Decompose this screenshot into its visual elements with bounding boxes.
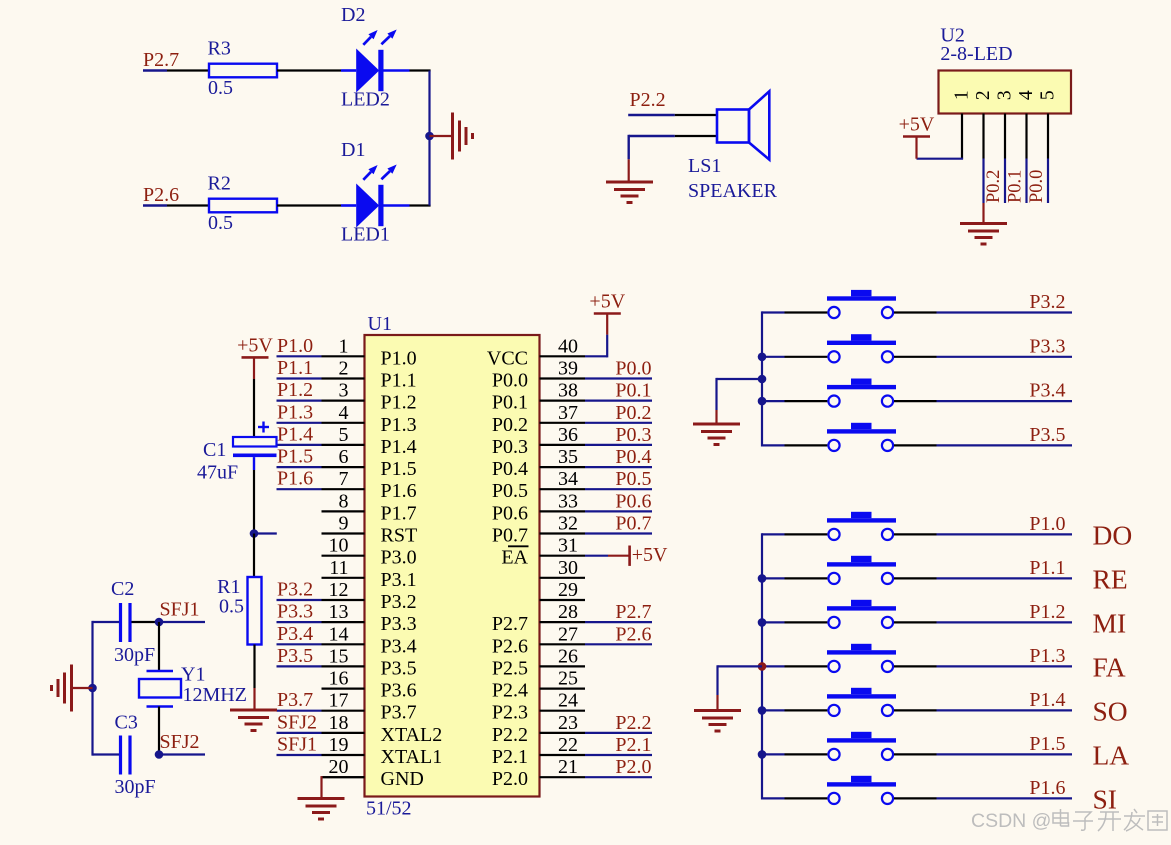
wire (93, 753, 120, 755)
svg-text:4: 4 (339, 402, 349, 424)
node P1.1 (937, 557, 1073, 579)
node P0.1 (585, 380, 652, 402)
svg-text:P0.0: P0.0 (1027, 170, 1047, 203)
svg-text:P3.3: P3.3 (1029, 335, 1065, 357)
svg-text:1: 1 (952, 90, 973, 100)
wire (1025, 114, 1027, 159)
speaker LS1 (717, 91, 769, 159)
svg-text:P0.0: P0.0 (615, 358, 651, 380)
node SFJ2 (155, 731, 205, 759)
junction (758, 397, 767, 406)
svg-text:P2.1: P2.1 (615, 734, 651, 756)
node P3.2 (277, 579, 322, 601)
pin 12 of U1 (P3.2) (322, 579, 417, 613)
svg-text:P3.2: P3.2 (1029, 291, 1065, 313)
svg-text:30pF: 30pF (114, 644, 155, 666)
svg-text:35: 35 (558, 446, 578, 468)
push-button switch S-LA (762, 732, 937, 760)
svg-text:SFJ1: SFJ1 (160, 599, 200, 621)
svg-text:12: 12 (329, 579, 349, 601)
svg-text:DO: DO (1093, 519, 1133, 550)
pin 19 of U1 (XTAL1) (322, 734, 443, 768)
svg-text:P0.1: P0.1 (615, 380, 651, 402)
pin 32 of U1 (P0.7) (492, 513, 585, 547)
push-button switch S-DO (762, 512, 937, 540)
node P2.1 (585, 734, 652, 756)
svg-text:P1.0: P1.0 (381, 347, 417, 369)
wire (917, 158, 964, 160)
node P0.7 (585, 513, 652, 535)
node P1.5 (937, 733, 1073, 755)
wire (430, 135, 453, 137)
node P3.3 (937, 335, 1073, 357)
wire (410, 69, 431, 71)
svg-text:P0.6: P0.6 (492, 502, 528, 524)
svg-text:P3.7: P3.7 (381, 702, 417, 724)
pin 34 of U1 (P0.5) (492, 468, 585, 502)
ground (52, 665, 72, 712)
svg-text:24: 24 (558, 690, 578, 712)
node P3.7 (277, 689, 322, 711)
node P0.4 (585, 446, 652, 468)
pin 31 of U1 (EA) (501, 535, 585, 569)
svg-text:U1: U1 (368, 313, 392, 335)
junction (250, 529, 259, 538)
push-button switch S-FA (762, 644, 937, 672)
wire (961, 114, 963, 159)
svg-text:P3.3: P3.3 (277, 601, 313, 623)
wire (915, 137, 917, 159)
pin 7 of U1 (P1.6) (322, 468, 417, 502)
svg-text:D1: D1 (341, 139, 365, 161)
wire (982, 203, 984, 223)
svg-text:P1.0: P1.0 (277, 335, 313, 357)
node P0.6 (585, 490, 652, 512)
svg-text:P1.4: P1.4 (1029, 689, 1065, 711)
svg-text:P1.4: P1.4 (381, 436, 417, 458)
svg-text:P3.2: P3.2 (277, 579, 313, 601)
wire (277, 204, 341, 206)
node P3.2 (937, 291, 1073, 313)
node P1.5 (277, 446, 322, 468)
svg-text:P0.4: P0.4 (615, 446, 651, 468)
resistor R1 (217, 576, 261, 645)
node P0.0 (585, 358, 652, 380)
ground (230, 710, 277, 731)
svg-text:3: 3 (995, 90, 1016, 100)
svg-text:21: 21 (558, 756, 578, 778)
svg-text:P0.1: P0.1 (1006, 170, 1026, 203)
node P3.3 (277, 601, 322, 623)
junction (425, 132, 434, 141)
pin 38 of U1 (P0.1) (492, 380, 585, 414)
svg-text:P2.6: P2.6 (615, 623, 651, 645)
junction (758, 375, 767, 384)
pin 39 of U1 (P0.0) (492, 358, 585, 392)
wire (158, 622, 160, 670)
wire (717, 378, 763, 423)
svg-text:P1.1: P1.1 (277, 357, 313, 379)
svg-text:P1.5: P1.5 (381, 458, 417, 480)
node P3.5 (937, 424, 1073, 446)
wire (675, 135, 717, 137)
svg-text:P1.6: P1.6 (277, 468, 313, 490)
node P3.5 (277, 645, 322, 667)
svg-text:P1.2: P1.2 (277, 379, 313, 401)
svg-text:P2.2: P2.2 (615, 712, 651, 734)
svg-text:1: 1 (339, 335, 349, 357)
svg-text:P0.5: P0.5 (615, 468, 651, 490)
wire (1047, 159, 1049, 204)
capacitor C3 (30pF) (115, 712, 156, 799)
node SFJ1 (155, 599, 205, 627)
pin 3 of U1 (P1.2) (322, 380, 417, 414)
node P0.5 (585, 468, 652, 490)
svg-text:P2.1: P2.1 (492, 746, 528, 768)
pin 26 of U1 (P2.5) (492, 645, 585, 679)
capacitor C1 (47uF electrolytic) (197, 422, 277, 484)
svg-text:VCC: VCC (487, 347, 528, 369)
svg-text:P1.6: P1.6 (1029, 777, 1065, 799)
pin 28 of U1 (P2.7) (492, 601, 585, 635)
svg-text:30: 30 (558, 557, 578, 579)
pin 13 of U1 (P3.3) (322, 601, 417, 635)
svg-text:17: 17 (329, 690, 349, 712)
svg-text:P0.2: P0.2 (492, 414, 528, 436)
push-button switch S-P3.2 (762, 290, 937, 318)
wire (718, 665, 763, 709)
svg-text:P3.4: P3.4 (277, 623, 313, 645)
wire (91, 621, 93, 756)
svg-text:Y1: Y1 (181, 664, 205, 686)
svg-text:XTAL1: XTAL1 (381, 746, 443, 768)
svg-text:33: 33 (558, 490, 578, 512)
pin 27 of U1 (P2.6) (492, 623, 585, 657)
svg-text:38: 38 (558, 380, 578, 402)
ground (606, 182, 653, 203)
wire (93, 621, 120, 623)
svg-text:5: 5 (1038, 90, 1059, 100)
pin 36 of U1 (P0.3) (492, 424, 585, 458)
junction (88, 684, 97, 693)
wire (675, 114, 717, 116)
svg-text:27: 27 (558, 623, 578, 645)
pin 17 of U1 (P3.7) (322, 690, 417, 724)
svg-text:SI: SI (1093, 783, 1117, 814)
svg-text:P1.2: P1.2 (381, 392, 417, 414)
svg-text:P3.0: P3.0 (381, 547, 417, 569)
node P1.1 (277, 357, 322, 379)
wire (167, 204, 209, 206)
svg-text:P2.7: P2.7 (143, 49, 179, 71)
svg-text:P1.3: P1.3 (1029, 645, 1065, 667)
svg-text:C1: C1 (203, 439, 226, 461)
pin 10 of U1 (P3.0) (322, 535, 417, 569)
pin 24 of U1 (P2.3) (492, 690, 585, 724)
node P1.3 (937, 645, 1073, 667)
svg-text:+5V: +5V (899, 114, 935, 136)
svg-text:9: 9 (339, 513, 349, 535)
resistor R2 (208, 173, 278, 235)
EA overline (508, 545, 529, 547)
resistor R3 (208, 38, 278, 100)
push-button switch S-SO (762, 688, 937, 716)
svg-text:P1.1: P1.1 (1029, 557, 1065, 579)
svg-text:P2.6: P2.6 (492, 635, 528, 657)
wire (322, 776, 365, 797)
svg-text:28: 28 (558, 601, 578, 623)
svg-text:12MHZ: 12MHZ (183, 684, 247, 706)
node P2.7 (585, 601, 652, 623)
svg-text:30pF: 30pF (115, 776, 156, 798)
svg-text:P0.3: P0.3 (615, 424, 651, 446)
svg-text:FA: FA (1093, 651, 1126, 682)
svg-text:P2.2: P2.2 (492, 724, 528, 746)
svg-text:LED1: LED1 (341, 224, 390, 246)
wire (132, 621, 160, 623)
wire (253, 357, 255, 437)
wire (158, 707, 160, 755)
ground (960, 224, 1007, 245)
svg-text:P0.6: P0.6 (615, 490, 651, 512)
pin 2 of U1 (P1.1) (322, 358, 417, 392)
svg-text:D2: D2 (341, 4, 365, 26)
pin 30 of U1 (NC) (540, 557, 586, 579)
wire (585, 314, 607, 358)
svg-text:SO: SO (1093, 695, 1128, 726)
junction (758, 574, 767, 583)
svg-text:C2: C2 (111, 578, 134, 600)
svg-text:P1.2: P1.2 (1029, 601, 1065, 623)
svg-text:P0.4: P0.4 (492, 458, 528, 480)
node P1.3 (277, 401, 322, 423)
svg-text:6: 6 (339, 446, 349, 468)
svg-text:P1.0: P1.0 (1029, 513, 1065, 535)
svg-text:P1.7: P1.7 (381, 502, 417, 524)
pin 29 of U1 (NC) (540, 579, 586, 601)
svg-text:+5V: +5V (632, 544, 668, 566)
svg-text:36: 36 (558, 424, 578, 446)
wire (1047, 114, 1049, 159)
node P1.6 (937, 777, 1073, 799)
node SFJ1 (277, 734, 322, 756)
push-button switch S-P3.5 (762, 423, 937, 451)
svg-text:47uF: 47uF (197, 462, 238, 484)
svg-text:23: 23 (558, 712, 578, 734)
svg-text:P1.5: P1.5 (1029, 733, 1065, 755)
svg-text:R3: R3 (208, 38, 231, 60)
crystal Y1 (12MHZ) (139, 664, 247, 707)
pin 35 of U1 (P0.4) (492, 446, 585, 480)
node P1.4 (937, 689, 1073, 711)
diode D2 (LED) (341, 30, 410, 93)
ground (453, 113, 473, 160)
svg-text:2: 2 (339, 358, 349, 380)
svg-text:LA: LA (1093, 739, 1130, 770)
svg-text:P2.2: P2.2 (630, 89, 666, 111)
svg-text:4: 4 (1016, 90, 1037, 100)
svg-text:MI: MI (1093, 607, 1127, 638)
svg-text:51/52: 51/52 (366, 798, 412, 820)
svg-text:P2.4: P2.4 (492, 680, 528, 702)
node P3.4 (277, 623, 322, 645)
svg-text:15: 15 (329, 645, 349, 667)
svg-text:39: 39 (558, 358, 578, 380)
pin 1 of U1 (P1.0) (322, 335, 417, 369)
pin 21 of U1 (P2.0) (492, 756, 585, 790)
svg-text:13: 13 (329, 601, 349, 623)
pin 25 of U1 (P2.4) (492, 668, 585, 702)
wire (982, 159, 984, 204)
wire (628, 159, 630, 181)
wire (1004, 114, 1006, 159)
svg-text:P0.2: P0.2 (615, 402, 651, 424)
svg-text:0.5: 0.5 (208, 212, 233, 234)
svg-text:P2.3: P2.3 (492, 702, 528, 724)
pin 11 of U1 (P3.1) (322, 557, 417, 591)
svg-text:P2.5: P2.5 (492, 657, 528, 679)
pin 20 of U1 (GND) (322, 756, 424, 790)
svg-text:2: 2 (973, 90, 994, 100)
svg-text:3: 3 (339, 380, 349, 402)
watermark chinese characters (1053, 809, 1167, 831)
node P2.6 (585, 623, 652, 645)
wire (253, 645, 255, 710)
node P1.2 (937, 601, 1073, 623)
svg-text:P3.4: P3.4 (381, 635, 417, 657)
svg-text:GND: GND (381, 768, 424, 790)
push-button switch S-RE (762, 556, 937, 584)
wire (585, 555, 629, 557)
svg-text:5: 5 (339, 424, 349, 446)
pin 22 of U1 (P2.1) (492, 734, 585, 768)
node P2.7 (143, 49, 179, 71)
svg-text:19: 19 (329, 734, 349, 756)
ground (693, 424, 740, 445)
svg-text:LED2: LED2 (341, 89, 390, 111)
svg-text:0.5: 0.5 (208, 77, 233, 99)
junction (758, 750, 767, 759)
wire (253, 457, 255, 533)
node P1.4 (277, 423, 322, 445)
node P3.4 (937, 380, 1073, 402)
push-button switch S-P3.4 (762, 379, 937, 407)
+5V supply (589, 291, 625, 314)
svg-text:P2.7: P2.7 (492, 613, 528, 635)
svg-text:P2.0: P2.0 (492, 768, 528, 790)
node P1.2 (277, 379, 322, 401)
pin 14 of U1 (P3.4) (322, 623, 417, 657)
pin 40 of U1 (VCC) (487, 335, 585, 369)
junction (758, 353, 767, 362)
svg-text:P1.6: P1.6 (381, 480, 417, 502)
wire (629, 135, 675, 160)
svg-text:11: 11 (329, 557, 348, 579)
svg-text:P0.1: P0.1 (492, 392, 528, 414)
wire (1025, 159, 1027, 204)
pin 23 of U1 (P2.2) (492, 712, 585, 746)
push-button switch S-MI (762, 600, 937, 628)
svg-text:SPEAKER: SPEAKER (688, 180, 778, 202)
svg-text:16: 16 (329, 668, 349, 690)
svg-text:P0.0: P0.0 (492, 370, 528, 392)
svg-text:P0.7: P0.7 (615, 513, 651, 535)
svg-text:7: 7 (339, 468, 349, 490)
pin 6 of U1 (P1.5) (322, 446, 417, 480)
svg-text:LS1: LS1 (688, 155, 721, 177)
svg-text:P0.3: P0.3 (492, 436, 528, 458)
svg-text:26: 26 (558, 645, 578, 667)
capacitor C2 (30pF) (111, 578, 155, 666)
svg-text:18: 18 (329, 712, 349, 734)
node P2.2 (628, 89, 675, 115)
svg-text:SFJ2: SFJ2 (277, 711, 317, 733)
svg-text:0.5: 0.5 (219, 596, 244, 618)
pin 33 of U1 (P0.6) (492, 490, 585, 524)
node SFJ2 (277, 711, 322, 733)
junction (758, 662, 767, 671)
svg-text:+5V: +5V (589, 291, 625, 313)
+5V supply (899, 114, 935, 137)
pin 37 of U1 (P0.2) (492, 402, 585, 436)
svg-text:P2.7: P2.7 (615, 601, 651, 623)
connector U2 (939, 25, 1072, 114)
pin 18 of U1 (XTAL2) (322, 712, 443, 746)
svg-text:P0.5: P0.5 (492, 480, 528, 502)
junction (758, 706, 767, 715)
wire (761, 311, 763, 446)
pin 16 of U1 (P3.6) (322, 668, 417, 702)
wire (1004, 159, 1006, 204)
wire (167, 69, 209, 71)
wire (761, 533, 763, 799)
svg-text:P1.3: P1.3 (277, 401, 313, 423)
svg-text:22: 22 (558, 734, 578, 756)
svg-text:P0.2: P0.2 (984, 170, 1004, 203)
ground (694, 711, 741, 732)
svg-text:8: 8 (339, 490, 349, 512)
svg-text:14: 14 (329, 623, 349, 645)
svg-text:P3.2: P3.2 (381, 591, 417, 613)
svg-text:XTAL2: XTAL2 (381, 724, 443, 746)
svg-text:10: 10 (329, 535, 349, 557)
pin 15 of U1 (P3.5) (322, 645, 417, 679)
pin 8 of U1 (P1.7) (322, 490, 417, 524)
push-button switch S-SI (762, 776, 937, 804)
svg-text:37: 37 (558, 402, 578, 424)
svg-text:SFJ1: SFJ1 (277, 734, 317, 756)
+5V supply (237, 334, 273, 357)
node P1.0 (937, 513, 1073, 535)
svg-text:CSDN @: CSDN @ (971, 810, 1051, 832)
svg-text:P1.1: P1.1 (381, 370, 417, 392)
svg-text:P3.6: P3.6 (381, 680, 417, 702)
svg-text:P3.3: P3.3 (381, 613, 417, 635)
node P2.6 (143, 184, 179, 206)
+5V supply (630, 544, 668, 566)
svg-text:40: 40 (558, 335, 578, 357)
wire (253, 534, 255, 578)
svg-text:+5V: +5V (237, 334, 273, 356)
svg-text:P3.4: P3.4 (1029, 380, 1065, 402)
svg-text:32: 32 (558, 513, 578, 535)
node P1.0 (277, 335, 322, 357)
svg-text:P1.5: P1.5 (277, 446, 313, 468)
svg-text:P1.3: P1.3 (381, 414, 417, 436)
node P2.0 (585, 756, 652, 778)
svg-text:2-8-LED: 2-8-LED (940, 43, 1012, 65)
ground (298, 799, 345, 820)
